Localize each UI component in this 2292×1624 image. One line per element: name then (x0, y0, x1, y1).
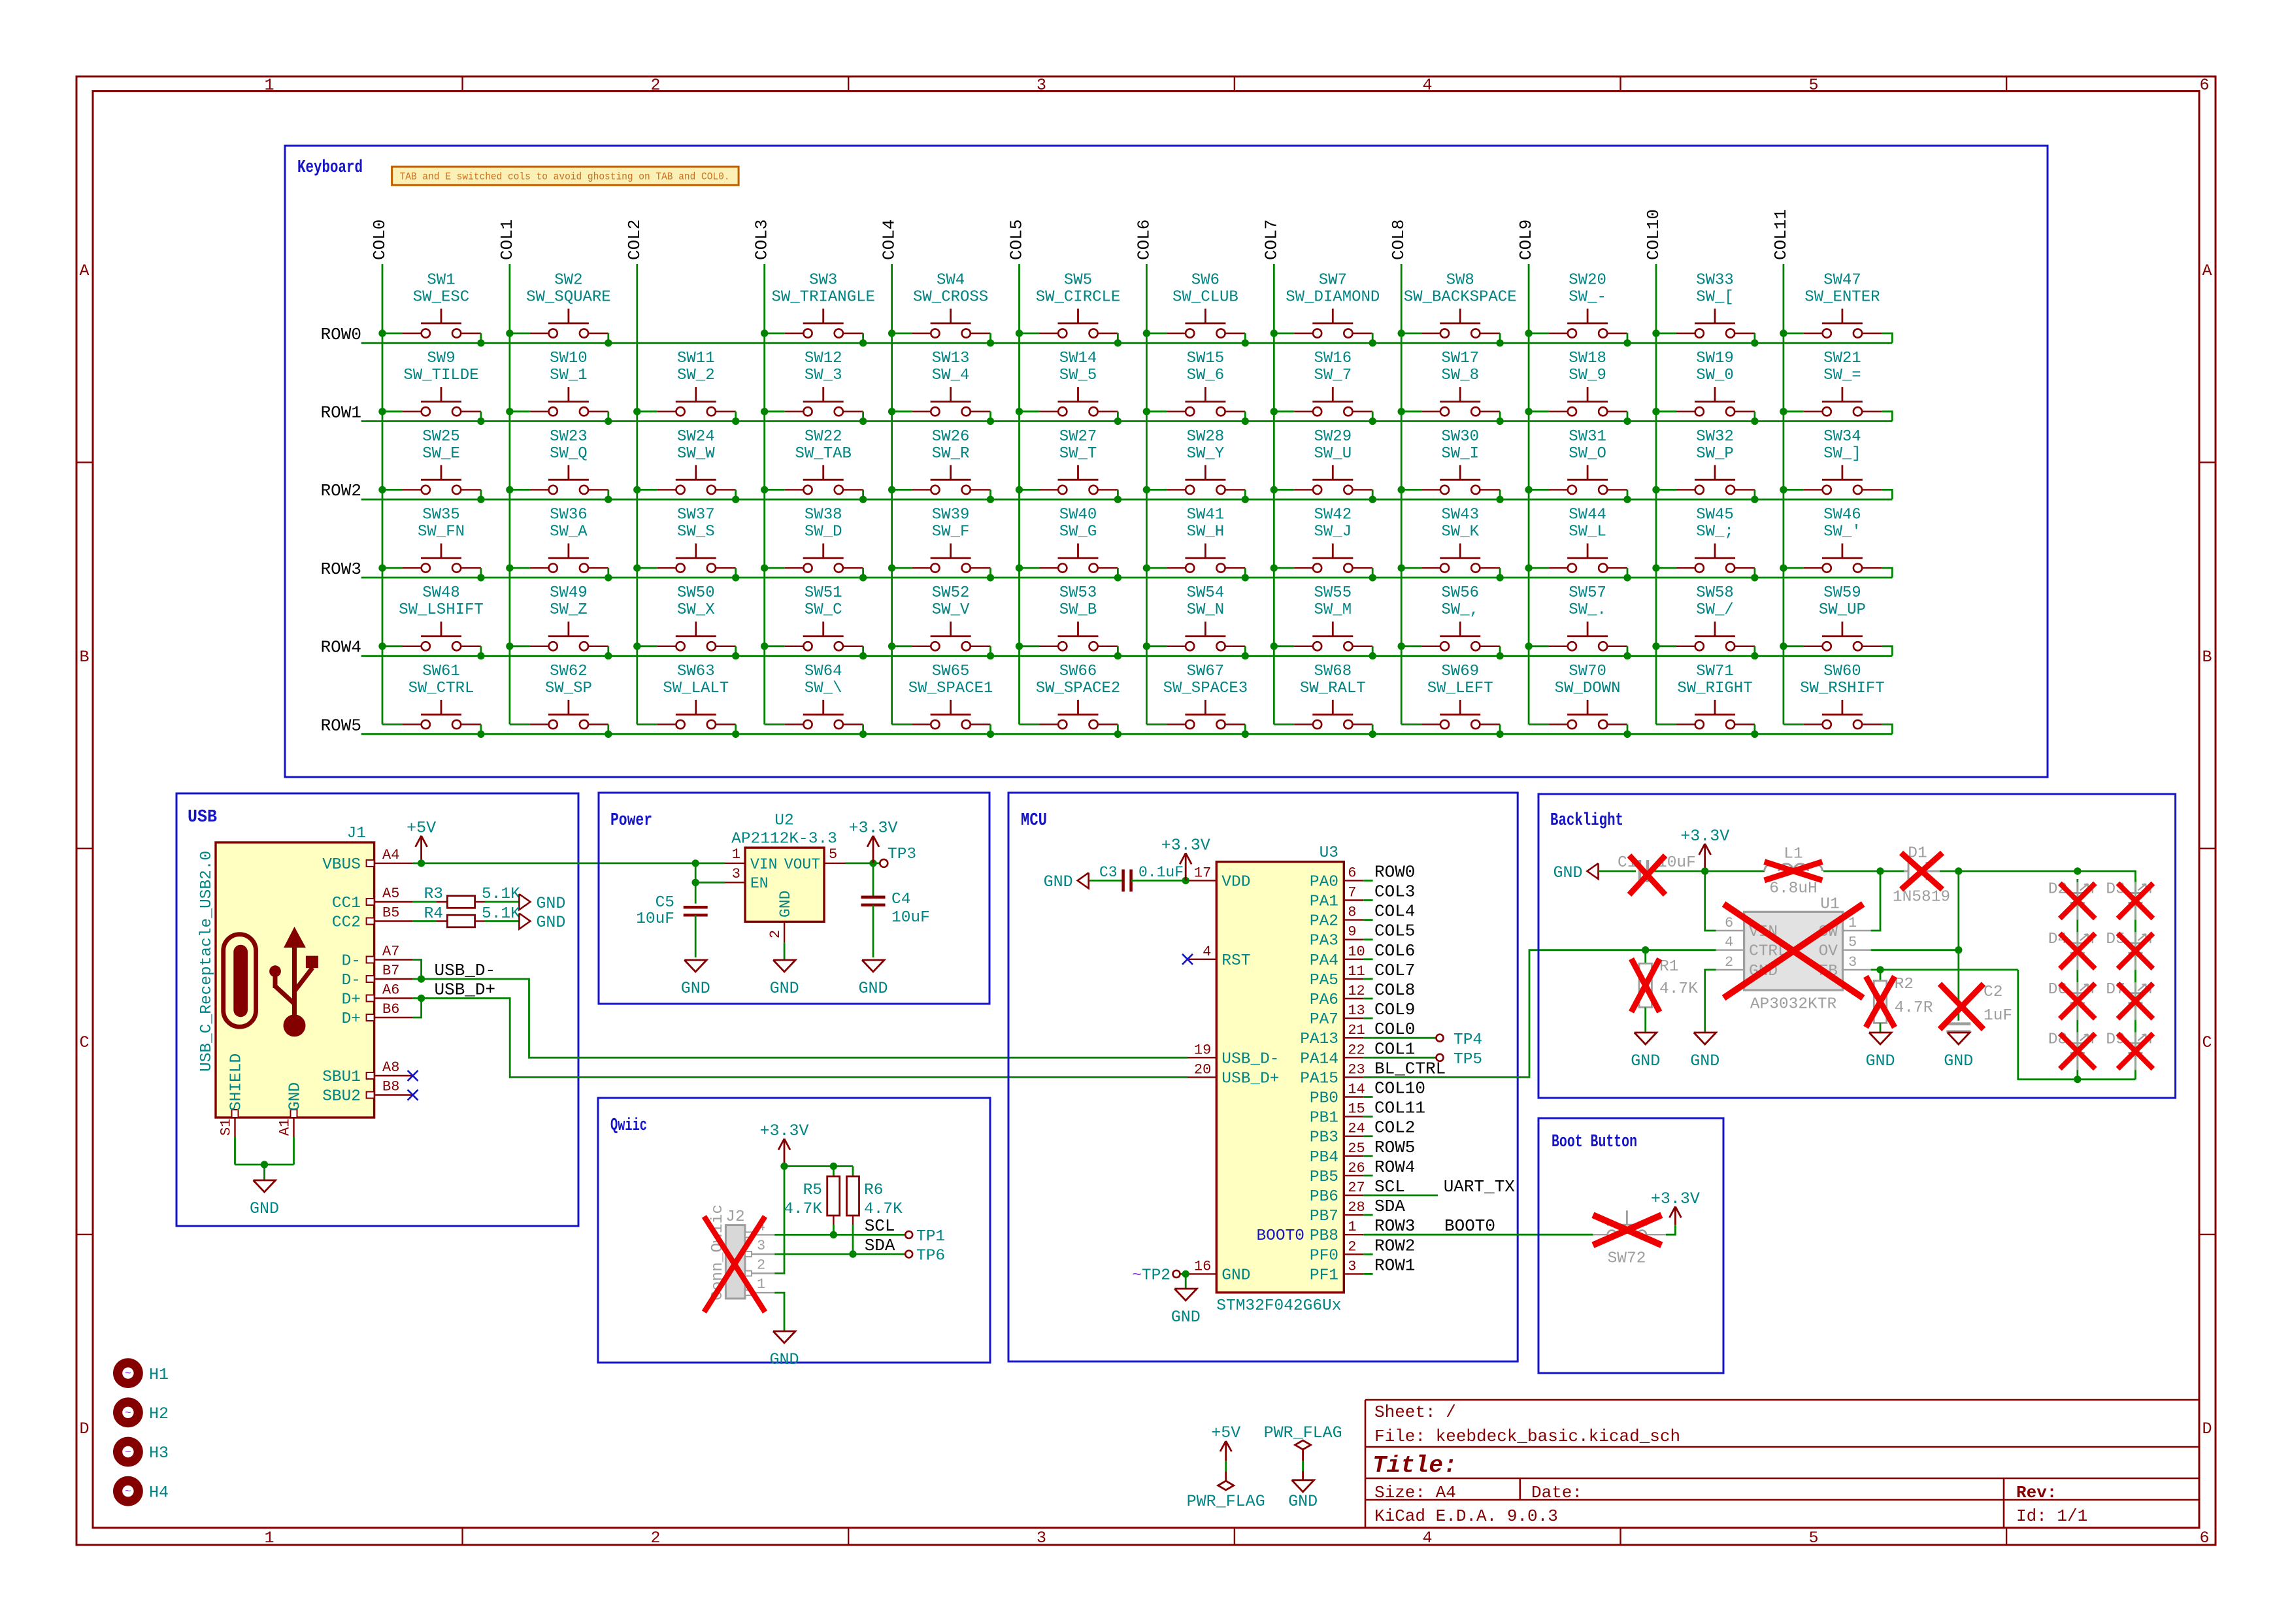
ground symbol GND (R2) (1865, 1033, 1895, 1070)
svg-text:SW56: SW56 (1441, 584, 1479, 602)
wire COL3 column (763, 264, 765, 725)
svg-text:SW_UP: SW_UP (1819, 601, 1866, 619)
no-connect RST (1182, 954, 1193, 965)
switch SW65 (SW_SPACE1) at ROW5/COL4 (892, 663, 995, 738)
svg-text:3: 3 (1348, 1258, 1356, 1274)
DNP cross over SW72 (1593, 1215, 1661, 1245)
svg-text:SW_SPACE3: SW_SPACE3 (1163, 680, 1248, 697)
wire U3 GND to ground (1182, 1270, 1189, 1289)
U3 pin 23 PA15 / net BL_CTRL (1300, 1059, 1446, 1087)
svg-text:PA0: PA0 (1310, 873, 1338, 891)
switch SW13 (SW_4) at ROW1/COL4 (888, 350, 994, 425)
svg-text:ROW3: ROW3 (1374, 1216, 1415, 1236)
switch SW27 (SW_T) at ROW2/COL5 (1016, 428, 1121, 503)
svg-text:TP4: TP4 (1453, 1031, 1482, 1049)
DNP cross over D9 (2118, 1033, 2153, 1069)
svg-text:GND: GND (536, 913, 565, 932)
ground symbol GND (C5) (681, 960, 710, 998)
svg-text:VOUT: VOUT (784, 856, 820, 873)
svg-text:SW_Y: SW_Y (1187, 445, 1225, 463)
svg-text:COL0: COL0 (1374, 1019, 1415, 1039)
label USB_D+ (435, 980, 496, 1000)
svg-text:SW_6: SW_6 (1187, 367, 1225, 384)
svg-text:SW20: SW20 (1569, 271, 1606, 289)
switch SW6 (SW_CLUB) at ROW0/COL6 (1143, 271, 1249, 346)
switch SW59 (SW_UP) at ROW4/COL11 (1780, 584, 1882, 650)
svg-text:COL7: COL7 (1261, 220, 1281, 260)
switch SW38 (SW_D) at ROW3/COL3 (761, 506, 867, 582)
svg-text:3: 3 (757, 1238, 765, 1254)
capacitor C1 10uF (DNP) (1618, 854, 1696, 882)
svg-text:USB_D-: USB_D- (435, 961, 496, 980)
svg-text:8: 8 (1348, 904, 1356, 921)
switch SW16 (SW_7) at ROW1/COL7 (1271, 350, 1376, 425)
svg-text:1N5819: 1N5819 (1893, 889, 1950, 906)
wire J2 pin2 to +3.3V (774, 1167, 784, 1274)
svg-text:SW_S: SW_S (677, 523, 715, 541)
svg-text:Id: 1/1: Id: 1/1 (2016, 1506, 2087, 1526)
svg-text:GND: GND (770, 979, 799, 998)
svg-text:SW_LEFT: SW_LEFT (1427, 680, 1493, 697)
svg-text:COL0: COL0 (370, 220, 390, 260)
DNP cross over D2 (2060, 884, 2095, 919)
svg-text:A: A (2202, 261, 2212, 280)
svg-text:5: 5 (829, 846, 837, 863)
resistor R5 4.7K (784, 1176, 840, 1235)
svg-text:4: 4 (1725, 935, 1733, 951)
svg-text:PA6: PA6 (1310, 991, 1338, 1009)
wire ROW1 bus (361, 412, 1893, 422)
svg-text:USB_D+: USB_D+ (1221, 1070, 1279, 1087)
switch SW48 (SW_LSHIFT) at ROW4/COL0 (378, 584, 484, 659)
svg-text:SW63: SW63 (677, 663, 715, 680)
power symbol +3.3V (MCU) (1161, 836, 1210, 880)
label ROW0 (321, 325, 361, 344)
svg-text:SW8: SW8 (1446, 271, 1474, 289)
U3 pin 22 PA14 / net COL1 (1300, 1039, 1415, 1068)
svg-text:SW_9: SW_9 (1569, 367, 1606, 384)
switch SW3 (SW_TRIANGLE) at ROW0/COL3 (761, 271, 875, 346)
switch SW5 (SW_CIRCLE) at ROW0/COL5 (1016, 271, 1121, 346)
svg-text:A1: A1 (277, 1119, 293, 1136)
DNP cross over R2 (1866, 976, 1895, 1027)
U3 pin 27 PB6 / net SCL (1310, 1177, 1405, 1206)
svg-text:TP3: TP3 (888, 846, 916, 863)
svg-text:ROW0: ROW0 (321, 325, 361, 344)
svg-text:BOOT0: BOOT0 (1256, 1227, 1304, 1245)
U3 pin 10 PA4 / net COL6 (1310, 941, 1416, 970)
svg-text:A7: A7 (382, 944, 399, 960)
svg-text:SW60: SW60 (1823, 663, 1861, 680)
svg-text:COL8: COL8 (1389, 220, 1408, 260)
LED D4 (DNP) (2048, 931, 2093, 970)
svg-text:Keyboard: Keyboard (297, 158, 363, 178)
ground symbol GND (U2) (770, 960, 799, 998)
switch SW62 (SW_SP) at ROW5/COL1 (510, 663, 612, 738)
svg-text:B: B (79, 648, 89, 667)
svg-text:ROW1: ROW1 (321, 403, 361, 423)
svg-text:23: 23 (1348, 1061, 1365, 1078)
switch SW72 (DNP) (1593, 1210, 1666, 1267)
svg-text:COL3: COL3 (1374, 882, 1415, 902)
svg-text:GND: GND (1044, 872, 1073, 891)
svg-text:PA7: PA7 (1310, 1011, 1338, 1029)
svg-text:SW16: SW16 (1314, 350, 1352, 367)
svg-text:SW_G: SW_G (1059, 523, 1097, 541)
USB section box (176, 793, 578, 1226)
svg-text:GND: GND (1865, 1052, 1895, 1070)
test point TP2 (1132, 1267, 1186, 1284)
svg-text:SW37: SW37 (677, 506, 715, 524)
svg-text:6: 6 (2199, 1529, 2209, 1548)
svg-text:PF1: PF1 (1310, 1267, 1338, 1284)
label BOOT0 (1444, 1216, 1495, 1236)
svg-text:1: 1 (732, 846, 740, 863)
svg-text:MCU: MCU (1021, 811, 1047, 831)
svg-text:ROW1: ROW1 (1374, 1255, 1415, 1275)
wire USB_D- pair join (413, 960, 425, 983)
svg-text:SW_Q: SW_Q (550, 445, 588, 463)
U3 pin 3 PF1 / net ROW1 (1310, 1255, 1416, 1284)
svg-text:SW_B: SW_B (1059, 601, 1097, 619)
svg-text:ROW4: ROW4 (321, 638, 361, 657)
svg-text:D-: D- (342, 953, 361, 970)
svg-text:PA13: PA13 (1300, 1031, 1338, 1048)
svg-text:USB: USB (188, 808, 217, 827)
ground symbol GND (Qwiic) (769, 1331, 799, 1369)
svg-text:GND: GND (1221, 1267, 1250, 1284)
svg-text:SW61: SW61 (422, 663, 460, 680)
svg-text:SW72: SW72 (1608, 1250, 1646, 1268)
svg-text:SW38: SW38 (805, 506, 842, 524)
test point TP6 (905, 1248, 945, 1265)
svg-text:PB4: PB4 (1310, 1149, 1338, 1167)
svg-text:GND: GND (1171, 1308, 1201, 1327)
svg-text:SW_;: SW_; (1696, 523, 1734, 541)
LED D6 (DNP) (2048, 981, 2093, 1020)
svg-text:R5: R5 (803, 1182, 822, 1199)
svg-text:5: 5 (1808, 1529, 1818, 1548)
svg-text:SW_0: SW_0 (1696, 367, 1734, 384)
switch SW67 (SW_SPACE3) at ROW5/COL6 (1146, 663, 1249, 738)
svg-text:SW23: SW23 (550, 428, 588, 446)
wire USB_D+ to MCU (422, 999, 1188, 1078)
label COL3 (752, 220, 772, 260)
svg-text:A8: A8 (382, 1059, 399, 1076)
svg-text:SW_=: SW_= (1823, 367, 1861, 384)
switch SW34 (SW_]) at ROW2/COL11 (1780, 428, 1882, 494)
wire COL7 column (1273, 264, 1275, 725)
svg-text:+5V: +5V (407, 819, 436, 838)
svg-text:SW47: SW47 (1823, 271, 1861, 289)
svg-text:SW49: SW49 (550, 584, 588, 602)
switch SW56 (SW_,) at ROW4/COL8 (1398, 584, 1504, 659)
regulator U2 AP2112K-3.3 (725, 812, 846, 943)
power symbol +3.3V (Backlight) (1680, 827, 1729, 875)
svg-text:10uF: 10uF (891, 909, 930, 927)
svg-text:0.1uF: 0.1uF (1138, 864, 1184, 881)
DNP cross over D5 (2118, 933, 2153, 969)
wire COL2 column (636, 264, 638, 725)
U3 pin 11 PA5 / net COL7 (1310, 961, 1416, 989)
svg-text:SW27: SW27 (1059, 428, 1097, 446)
svg-text:SW_TILDE: SW_TILDE (403, 367, 478, 384)
svg-text:SW_2: SW_2 (677, 367, 715, 384)
ground symbol GND (PWR_FLAG) (1288, 1480, 1318, 1511)
svg-text:4.7R: 4.7R (1895, 999, 1933, 1017)
svg-text:File: keebdeck_basic.kicad_sch: File: keebdeck_basic.kicad_sch (1374, 1427, 1680, 1446)
LED D3 (DNP) (2106, 881, 2150, 920)
svg-text:SW14: SW14 (1059, 350, 1097, 367)
svg-text:H3: H3 (149, 1444, 169, 1463)
svg-text:USB_D+: USB_D+ (435, 980, 496, 1000)
label ROW2 (321, 481, 361, 501)
svg-text:SCL: SCL (865, 1216, 895, 1236)
switch SW25 (SW_E) at ROW2/COL0 (378, 428, 484, 503)
Boot Button section box (1538, 1118, 1723, 1373)
svg-text:TP5: TP5 (1453, 1051, 1482, 1069)
U3 pin 4 RST (1188, 944, 1250, 970)
svg-text:ROW4: ROW4 (1374, 1157, 1415, 1177)
wire BOOT0 from PB8 to Boot Button (1373, 1234, 1593, 1236)
svg-text:10uF: 10uF (636, 910, 674, 928)
svg-text:SW62: SW62 (550, 663, 588, 680)
hierarchical label GND (R3) (519, 894, 565, 913)
svg-text:25: 25 (1348, 1140, 1365, 1157)
mounting hole H2 (113, 1397, 169, 1427)
svg-text:3: 3 (732, 866, 740, 882)
switch SW32 (SW_P) at ROW2/COL10 (1652, 428, 1758, 503)
MCU section box (1008, 793, 1518, 1361)
resistor R4 5.1K on CC2 (413, 905, 521, 927)
svg-text:2: 2 (757, 1257, 765, 1274)
svg-text:R4: R4 (424, 905, 443, 923)
label COL8 (1389, 220, 1408, 260)
hierarchical label GND (R4) (519, 913, 565, 932)
wire TP4 (COL0) (1373, 1037, 1437, 1039)
wire SW72 to +3.3V (1666, 1225, 1676, 1235)
svg-text:SW_O: SW_O (1569, 445, 1606, 463)
svg-text:SBU2: SBU2 (322, 1088, 361, 1106)
svg-text:COL1: COL1 (497, 220, 517, 260)
svg-text:USB_C_Receptacle_USB2.0: USB_C_Receptacle_USB2.0 (198, 851, 216, 1072)
svg-text:TAB and E switched cols to avo: TAB and E switched cols to avoid ghostin… (400, 171, 730, 183)
svg-text:15: 15 (1348, 1101, 1365, 1118)
svg-text:GND: GND (777, 891, 794, 918)
svg-text:GND: GND (1631, 1052, 1660, 1070)
svg-text:B6: B6 (382, 1001, 399, 1018)
wire ROW2 bus (361, 489, 1893, 499)
svg-text:VDD: VDD (1221, 873, 1250, 891)
svg-text:C5: C5 (656, 894, 674, 912)
wire +5V net to Power VIN (422, 863, 696, 865)
svg-text:SW_ENTER: SW_ENTER (1804, 288, 1880, 306)
svg-text:SW67: SW67 (1187, 663, 1225, 680)
test point TP3 (880, 846, 916, 867)
svg-text:SW_': SW_' (1823, 523, 1861, 541)
svg-text:AP3032KTR: AP3032KTR (1750, 996, 1837, 1014)
wire COL0 column (382, 264, 384, 725)
U3 pin 20 USB_D+ (1188, 1061, 1280, 1087)
switch SW29 (SW_U) at ROW2/COL7 (1271, 428, 1376, 503)
svg-text:~: ~ (125, 1407, 131, 1419)
mounting hole H3 (113, 1437, 169, 1467)
label UART_TX (1444, 1177, 1516, 1197)
switch SW45 (SW_;) at ROW3/COL10 (1652, 506, 1758, 582)
DNP cross over C2 (1940, 984, 1984, 1029)
svg-text:SW_RALT: SW_RALT (1300, 680, 1366, 697)
U3 pin 16 GND (1188, 1258, 1250, 1284)
svg-text:SW28: SW28 (1187, 428, 1225, 446)
svg-text:SW58: SW58 (1696, 584, 1734, 602)
svg-text:1: 1 (264, 1529, 274, 1548)
switch SW9 (SW_TILDE) at ROW1/COL0 (378, 350, 484, 425)
svg-text:COL9: COL9 (1516, 220, 1536, 260)
svg-text:SW46: SW46 (1823, 506, 1861, 524)
DNP cross over D4 (2060, 933, 2095, 969)
switch SW20 (SW_-) at ROW0/COL9 (1525, 271, 1631, 346)
svg-text:SW40: SW40 (1059, 506, 1097, 524)
svg-text:SW41: SW41 (1187, 506, 1225, 524)
switch SW23 (SW_Q) at ROW2/COL1 (506, 428, 612, 503)
svg-text:C2: C2 (1984, 984, 2002, 1001)
svg-text:SW54: SW54 (1187, 584, 1225, 602)
switch SW28 (SW_Y) at ROW2/COL6 (1143, 428, 1249, 503)
svg-text:SW_[: SW_[ (1696, 288, 1734, 306)
svg-text:SW68: SW68 (1314, 663, 1352, 680)
svg-text:SW_CIRCLE: SW_CIRCLE (1036, 288, 1121, 306)
svg-text:~: ~ (125, 1368, 131, 1380)
wire ROW5 bus (361, 725, 1893, 735)
svg-text:SW36: SW36 (550, 506, 588, 524)
wire U2 GND pin to ground (784, 942, 786, 960)
svg-text:CC1: CC1 (332, 895, 361, 912)
switch SW61 (SW_CTRL) at ROW5/COL0 (382, 663, 485, 738)
svg-text:6: 6 (1725, 915, 1733, 931)
svg-text:COL1: COL1 (1374, 1039, 1415, 1059)
svg-text:SW_CROSS: SW_CROSS (913, 288, 988, 306)
USB logo inside J1 (224, 927, 318, 1036)
DNP cross over J2 (704, 1216, 765, 1312)
switch SW10 (SW_1) at ROW1/COL1 (506, 350, 612, 425)
svg-text:SW_-: SW_- (1569, 288, 1606, 306)
svg-text:2: 2 (767, 930, 784, 938)
svg-text:Date:: Date: (1531, 1483, 1582, 1502)
svg-text:U2: U2 (774, 812, 793, 830)
power symbol +3.3V (Qwiic) (759, 1121, 808, 1166)
svg-text:PA2: PA2 (1310, 913, 1338, 931)
DNP cross over D6 (2060, 984, 2095, 1019)
svg-text:COL2: COL2 (1374, 1118, 1415, 1138)
svg-text:9: 9 (1348, 924, 1356, 940)
svg-text:SW_FN: SW_FN (418, 523, 465, 541)
switch SW44 (SW_L) at ROW3/COL9 (1525, 506, 1631, 582)
svg-text:SW_LSHIFT: SW_LSHIFT (399, 601, 484, 619)
svg-text:B7: B7 (382, 963, 399, 979)
DNP cross over L1 (1765, 862, 1823, 880)
no-connect SBU2 (408, 1090, 418, 1101)
switch SW54 (SW_N) at ROW4/COL6 (1143, 584, 1249, 659)
wire VDD to +3.3V junction (1182, 877, 1189, 884)
svg-text:PWR_FLAG: PWR_FLAG (1187, 1492, 1265, 1511)
switch SW55 (SW_M) at ROW4/COL7 (1271, 584, 1376, 659)
svg-text:ROW2: ROW2 (321, 481, 361, 501)
svg-text:SW69: SW69 (1441, 663, 1479, 680)
label ROW3 (321, 559, 361, 579)
svg-text:SW_DIAMOND: SW_DIAMOND (1286, 288, 1380, 306)
svg-text:KiCad E.D.A. 9.0.3: KiCad E.D.A. 9.0.3 (1374, 1506, 1558, 1526)
svg-text:EN: EN (750, 875, 769, 892)
svg-text:COL4: COL4 (1374, 902, 1415, 921)
switch SW71 (SW_RIGHT) at ROW5/COL10 (1656, 663, 1759, 738)
svg-text:H4: H4 (149, 1483, 169, 1502)
label ROW4 (321, 638, 361, 657)
resistor R6 4.7K (847, 1176, 903, 1254)
wire rail to LED columns (1955, 867, 2135, 893)
svg-text:SW51: SW51 (805, 584, 842, 602)
svg-text:SW65: SW65 (932, 663, 970, 680)
LED driver U1 AP3032KTR (DNP) (1716, 896, 1871, 1014)
svg-text:SW44: SW44 (1569, 506, 1606, 524)
switch SW22 (SW_TAB) at ROW2/COL3 (761, 428, 867, 503)
svg-text:SW_R: SW_R (932, 445, 970, 463)
svg-text:10: 10 (1348, 944, 1365, 960)
svg-text:SW_H: SW_H (1187, 523, 1225, 541)
svg-text:TP6: TP6 (916, 1248, 945, 1265)
LED D9 (DNP) (2106, 1031, 2150, 1070)
svg-text:J2: J2 (725, 1208, 744, 1226)
svg-text:PF0: PF0 (1310, 1247, 1338, 1265)
switch SW66 (SW_SPACE2) at ROW5/COL5 (1020, 663, 1122, 738)
svg-text:A6: A6 (382, 982, 399, 999)
svg-text:3: 3 (1037, 1529, 1046, 1548)
label SDA (865, 1236, 895, 1255)
wire COL5 column (1018, 264, 1020, 725)
svg-text:SW13: SW13 (932, 350, 970, 367)
mounting hole H4 (113, 1476, 169, 1506)
svg-text:SW42: SW42 (1314, 506, 1352, 524)
svg-text:CC2: CC2 (332, 914, 361, 932)
svg-text:1: 1 (1348, 1219, 1356, 1235)
Backlight section box (1538, 794, 2176, 1098)
switch SW52 (SW_V) at ROW4/COL4 (888, 584, 994, 659)
switch SW70 (SW_DOWN) at ROW5/COL9 (1529, 663, 1631, 738)
svg-text:ROW5: ROW5 (1374, 1138, 1415, 1157)
wire J2 pin1 to ground (774, 1293, 784, 1331)
svg-text:SW_.: SW_. (1569, 601, 1606, 619)
svg-text:SW45: SW45 (1696, 506, 1734, 524)
wire USB_D- to MCU (422, 979, 1188, 1057)
svg-text:SW_SPACE1: SW_SPACE1 (908, 680, 993, 697)
switch SW17 (SW_8) at ROW1/COL8 (1398, 350, 1504, 425)
wire U1 GND to ground (1705, 970, 1716, 1033)
svg-text:2: 2 (1348, 1238, 1356, 1255)
ground symbol GND (R1) (1631, 1033, 1660, 1070)
svg-text:SW10: SW10 (550, 350, 588, 367)
svg-text:COL6: COL6 (1374, 941, 1415, 961)
svg-text:PA5: PA5 (1310, 972, 1338, 989)
svg-text:B: B (2202, 648, 2212, 667)
svg-text:SW11: SW11 (677, 350, 715, 367)
U3 pin 21 PA13 / net COL0 (1300, 1019, 1415, 1048)
svg-text:+3.3V: +3.3V (759, 1121, 808, 1140)
svg-text:SW_4: SW_4 (932, 367, 970, 384)
svg-text:A4: A4 (382, 847, 399, 863)
svg-text:J1: J1 (347, 825, 366, 842)
Power section box (599, 793, 989, 1004)
svg-text:1: 1 (264, 76, 274, 95)
svg-text:GND: GND (536, 894, 565, 913)
